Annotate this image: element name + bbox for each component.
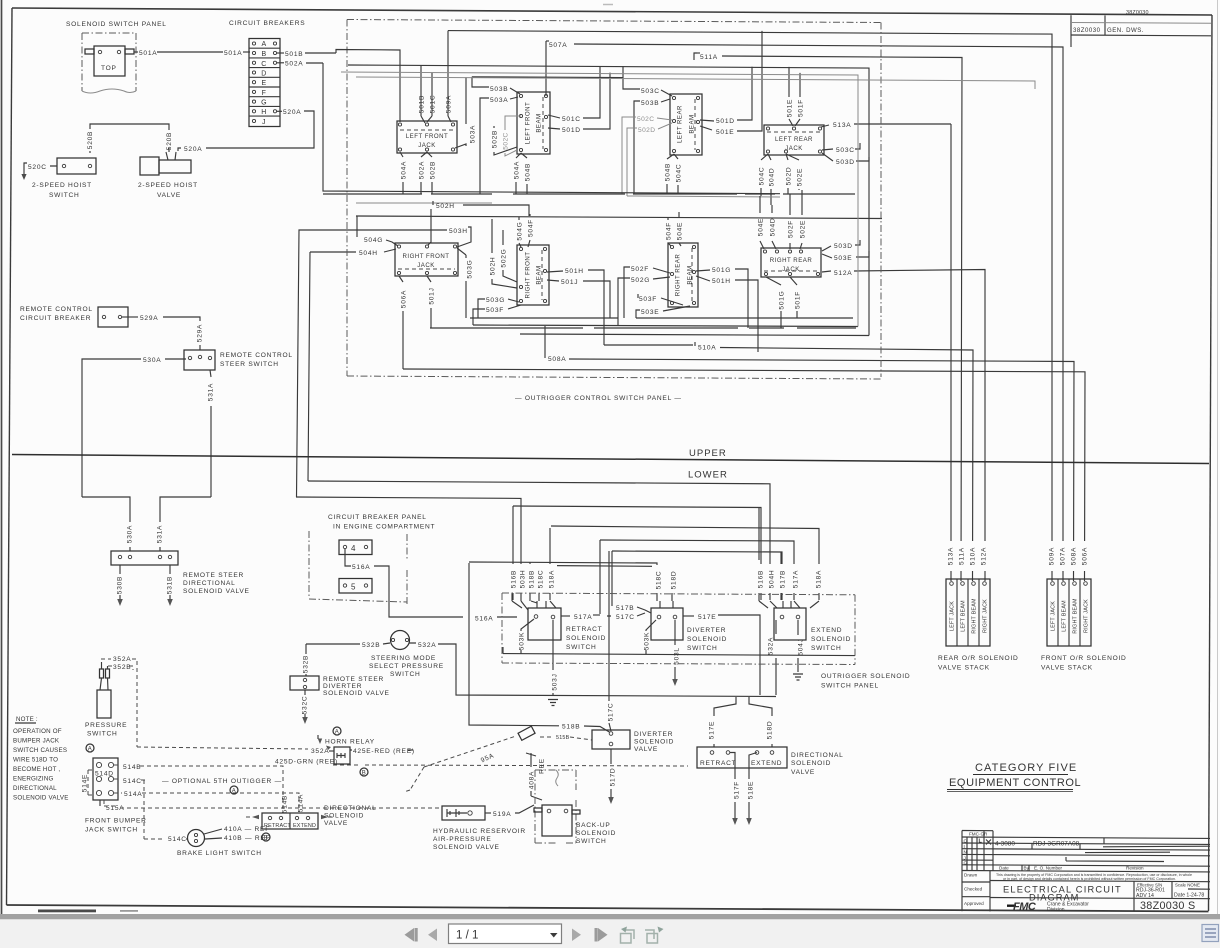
svg-text:514B: 514B — [123, 764, 141, 771]
svg-text:514D: 514D — [95, 771, 114, 778]
svg-text:530A: 530A — [143, 357, 161, 364]
svg-text:SWITCH PANEL: SWITCH PANEL — [821, 683, 879, 690]
svg-text:SOLENOID: SOLENOID — [634, 739, 674, 746]
svg-text:514A: 514A — [124, 791, 142, 798]
viewer right edge line — [1217, 0, 1219, 915]
svg-text:Scale NONE: Scale NONE — [1175, 883, 1200, 888]
y=72 trunk — [341, 72, 858, 327]
svg-text:518C: 518C — [656, 571, 663, 590]
svg-text:504F: 504F — [528, 219, 535, 237]
svg-text:CIRCUIT BREAKERS: CIRCUIT BREAKERS — [229, 20, 305, 27]
svg-text:508A: 508A — [548, 356, 566, 363]
wire 502A from breaker C — [277, 62, 284, 64]
svg-text:RIGHT REAR: RIGHT REAR — [675, 254, 682, 297]
svg-text:SWITCH: SWITCH — [687, 645, 718, 652]
svg-text:BECOME HOT ,: BECOME HOT , — [13, 766, 60, 773]
svg-text:509A: 509A — [1049, 547, 1056, 565]
svg-text:EQUIPMENT CONTROL: EQUIPMENT CONTROL — [949, 777, 1081, 789]
svg-text:38Z0030: 38Z0030 — [1073, 27, 1101, 34]
svg-text:503B: 503B — [641, 100, 659, 107]
svg-text:502E: 502E — [800, 220, 807, 238]
svg-text:G: G — [964, 861, 968, 866]
svg-text:501C: 501C — [562, 116, 581, 123]
bottom-left corner fine print — [38, 910, 96, 913]
wire 501B from breaker B — [277, 52, 284, 54]
svg-text:DIRECTIONAL: DIRECTIONAL — [183, 580, 236, 587]
517C drop — [609, 551, 611, 731]
svg-text:514C: 514C — [168, 836, 187, 843]
516A wiring — [345, 549, 351, 566]
svg-text:VALVE STACK: VALVE STACK — [938, 665, 990, 672]
svg-text:SOLENOID VALVE: SOLENOID VALVE — [183, 588, 250, 595]
svg-text:506A: 506A — [401, 290, 408, 308]
svg-text:RETRACT: RETRACT — [264, 823, 291, 829]
svg-text:517B: 517B — [616, 605, 634, 612]
svg-text:VALVE: VALVE — [157, 192, 181, 199]
pressure switch — [97, 690, 111, 718]
svg-text:CIRCUIT BREAKER: CIRCUIT BREAKER — [20, 315, 91, 322]
left front beam — [517, 92, 550, 154]
svg-text:SOLENOID: SOLENOID — [811, 636, 851, 643]
svg-text:VALVE STACK: VALVE STACK — [1041, 665, 1093, 672]
svg-text:502E: 502E — [797, 168, 804, 186]
svg-text:503C: 503C — [641, 88, 660, 95]
svg-text:517F: 517F — [734, 781, 741, 799]
svg-text:A: A — [232, 789, 236, 795]
steering mode select pressure switch — [391, 631, 410, 650]
svg-text:504C: 504C — [759, 167, 766, 186]
front bumper jack switch — [93, 758, 118, 800]
svg-text:4: 4 — [351, 544, 356, 553]
svg-text:506A: 506A — [1082, 547, 1089, 565]
svg-text:F: F — [262, 90, 267, 97]
svg-text:511A: 511A — [700, 54, 718, 61]
svg-text:STEERING MODE: STEERING MODE — [371, 655, 436, 662]
svg-text:502B: 502B — [430, 161, 437, 179]
outrigger solenoid switch panel dash-dot — [502, 593, 855, 665]
svg-text:SWITCH: SWITCH — [390, 671, 421, 678]
svg-text:LEFT REAR: LEFT REAR — [775, 136, 813, 143]
svg-text:REAR O/R SOLENOID: REAR O/R SOLENOID — [938, 655, 1019, 662]
first page icon — [405, 928, 418, 942]
left rear jack — [764, 125, 824, 155]
svg-text:DIVERTER: DIVERTER — [634, 731, 673, 738]
wire 501A — [134, 51, 138, 53]
svg-text:LEFT BEAM: LEFT BEAM — [1062, 600, 1068, 632]
516B bus — [513, 506, 761, 600]
svg-text:LEFT BEAM: LEFT BEAM — [961, 600, 967, 632]
518A bus — [551, 526, 819, 600]
svg-text:BEAM: BEAM — [536, 113, 543, 132]
svg-text:501E: 501E — [716, 129, 734, 136]
svg-text:RIGHT BEAM: RIGHT BEAM — [972, 598, 978, 634]
svg-text:Drawn: Drawn — [964, 873, 978, 878]
svg-text:H: H — [261, 109, 266, 116]
sidebar icon bottom right — [1202, 925, 1219, 942]
svg-text:504B: 504B — [525, 163, 532, 181]
svg-text:504C: 504C — [676, 164, 683, 183]
svg-text:517C: 517C — [616, 614, 635, 621]
506A wire — [403, 369, 1085, 581]
svg-text:503D: 503D — [836, 159, 855, 166]
svg-text:504D: 504D — [770, 218, 777, 237]
svg-text:DIRECTIONAL: DIRECTIONAL — [791, 752, 844, 759]
svg-text:FRONT O/R SOLENOID: FRONT O/R SOLENOID — [1041, 655, 1127, 662]
FMC logo — [1007, 901, 1037, 913]
svg-text:510A: 510A — [698, 345, 716, 352]
svg-text:502F: 502F — [788, 220, 795, 238]
svg-text:SWITCH CAUSES: SWITCH CAUSES — [13, 747, 67, 754]
svg-text:EXTEND: EXTEND — [811, 627, 842, 634]
svg-text:532C: 532C — [302, 696, 309, 715]
svg-text:502C: 502C — [503, 132, 510, 149]
svg-text:RIGHT JACK: RIGHT JACK — [1084, 599, 1090, 633]
svg-text:520A: 520A — [184, 146, 202, 153]
svg-text:511A: 511A — [959, 547, 966, 565]
svg-text:518B: 518B — [529, 570, 536, 588]
left rear beam — [670, 94, 702, 155]
svg-text:STEER SWITCH: STEER SWITCH — [220, 361, 279, 368]
svg-text:Approved: Approved — [964, 901, 984, 906]
svg-text:A: A — [261, 41, 266, 48]
svg-text:RIGHT FRONT: RIGHT FRONT — [402, 253, 449, 260]
top right GEN DWS table — [1070, 15, 1072, 47]
svg-text:I: I — [964, 844, 965, 849]
prev page icon — [428, 929, 437, 942]
svg-text:NOTE :: NOTE : — [16, 716, 38, 723]
svg-text:503D: 503D — [834, 243, 853, 250]
svg-text:or in part, of design and deta: or in part, of design and details contai… — [1003, 877, 1176, 881]
svg-text:517E: 517E — [709, 721, 716, 739]
svg-text:501J: 501J — [561, 279, 578, 286]
svg-text:532B: 532B — [362, 642, 380, 649]
svg-text:517E: 517E — [698, 614, 716, 621]
svg-text:352A: 352A — [311, 748, 329, 755]
svg-text:EXTEND: EXTEND — [751, 760, 782, 767]
svg-text:TOP: TOP — [101, 65, 117, 72]
solenoid switch box TOP — [94, 46, 125, 76]
svg-text:VALVE: VALVE — [791, 769, 815, 776]
svg-text:513A: 513A — [833, 122, 851, 129]
svg-text:518B: 518B — [562, 724, 580, 731]
svg-text:509A: 509A — [446, 95, 453, 113]
svg-text:520B: 520B — [87, 131, 94, 149]
svg-text:B: B — [264, 836, 268, 842]
svg-text:502B: 502B — [492, 130, 499, 148]
svg-text:RDJ-3GR07A08: RDJ-3GR07A08 — [1033, 840, 1080, 847]
2-speed hoist switch — [57, 158, 96, 174]
svg-text:508A: 508A — [1071, 547, 1078, 565]
svg-text:SWITCH: SWITCH — [87, 731, 118, 738]
svg-text:504A: 504A — [401, 161, 408, 179]
svg-text:By: By — [1024, 866, 1030, 871]
svg-text:VALVE: VALVE — [324, 820, 348, 827]
svg-text:512A: 512A — [834, 270, 852, 277]
svg-text:501A: 501A — [139, 50, 157, 57]
next page icon — [572, 929, 581, 942]
wire bracket bus row1 — [323, 193, 855, 195]
svg-text:BUMPER JACK: BUMPER JACK — [13, 738, 60, 745]
svg-text:502D: 502D — [638, 127, 655, 134]
svg-text:4-3080: 4-3080 — [995, 840, 1015, 847]
svg-text:503H: 503H — [449, 228, 468, 235]
svg-text:FRONT BUMPER: FRONT BUMPER — [85, 818, 147, 825]
svg-text:531B: 531B — [167, 576, 174, 594]
svg-text:JACK: JACK — [417, 262, 435, 269]
svg-text:1 / 1: 1 / 1 — [456, 930, 478, 942]
svg-text:SWITCH: SWITCH — [49, 192, 80, 199]
svg-text:514A: 514A — [298, 794, 305, 812]
svg-text:LEFT JACK: LEFT JACK — [950, 601, 956, 631]
svg-text:BEAM: BEAM — [687, 265, 694, 284]
svg-text:503K: 503K — [644, 632, 651, 650]
svg-text:503C: 503C — [836, 147, 855, 154]
svg-text:SWITCH: SWITCH — [576, 838, 607, 845]
svg-text:SOLENOID: SOLENOID — [576, 830, 616, 837]
NOTE block — [13, 716, 69, 802]
svg-text:REMOTE CONTROL: REMOTE CONTROL — [20, 306, 93, 313]
svg-text:IN ENGINE COMPARTMENT: IN ENGINE COMPARTMENT — [333, 524, 435, 531]
svg-text:502A: 502A — [419, 161, 426, 179]
svg-text:REMOTE CONTROL: REMOTE CONTROL — [220, 352, 293, 359]
svg-text:514B: 514B — [282, 795, 289, 813]
svg-text:2-SPEED HOIST: 2-SPEED HOIST — [138, 182, 198, 189]
svg-text:501F: 501F — [795, 291, 802, 309]
horn relay — [333, 727, 341, 735]
svg-text:SOLENOID: SOLENOID — [791, 760, 831, 767]
svg-text:520C: 520C — [28, 164, 47, 171]
svg-text:529A: 529A — [140, 315, 158, 322]
svg-text:D: D — [261, 71, 266, 78]
svg-text:503G: 503G — [467, 259, 474, 278]
svg-text:503A: 503A — [490, 97, 508, 104]
svg-text:PRESSURE: PRESSURE — [85, 722, 127, 729]
516A routing box verticals — [469, 563, 559, 726]
svg-text:502G: 502G — [501, 248, 508, 267]
svg-text:518A: 518A — [549, 570, 556, 588]
left front jack — [397, 121, 457, 153]
svg-text:SOLENOID: SOLENOID — [566, 635, 606, 642]
507A tap above LFB — [545, 41, 547, 96]
svg-text:514C: 514C — [123, 778, 142, 785]
svg-text:RIGHT FRONT: RIGHT FRONT — [525, 251, 532, 298]
svg-text:SOLENOID VALVE: SOLENOID VALVE — [13, 795, 69, 802]
svg-text:408A: 408A — [529, 771, 536, 789]
svg-text:518E: 518E — [748, 781, 755, 799]
svg-text:516B: 516B — [511, 570, 518, 588]
svg-text:RIGHT BEAM: RIGHT BEAM — [1073, 598, 1079, 634]
svg-text:SWITCH: SWITCH — [566, 644, 597, 651]
svg-text:501D: 501D — [716, 118, 735, 125]
svg-text:516A: 516A — [352, 564, 370, 571]
svg-text:504G: 504G — [364, 237, 383, 244]
svg-text:OPERATION OF: OPERATION OF — [13, 728, 62, 735]
title block outer — [962, 831, 1210, 912]
circled A — [86, 744, 94, 752]
svg-text:503E: 503E — [641, 309, 659, 316]
svg-text:SWITCH: SWITCH — [811, 645, 842, 652]
svg-text:530B: 530B — [117, 576, 124, 594]
svg-text:501C: 501C — [430, 95, 437, 114]
svg-text:502H: 502H — [436, 203, 455, 210]
svg-text:532B: 532B — [303, 655, 310, 673]
svg-text:ENERGIZING: ENERGIZING — [13, 776, 54, 783]
svg-text:DIRECTIONAL: DIRECTIONAL — [13, 785, 57, 792]
svg-text:516A: 516A — [475, 616, 493, 623]
svg-text:DIVERTER: DIVERTER — [323, 683, 362, 690]
svg-text:C: C — [261, 61, 266, 68]
svg-text:503E: 503E — [834, 255, 852, 262]
svg-text:504H: 504H — [769, 570, 776, 589]
svg-text:E. O. Number: E. O. Number — [1034, 866, 1063, 871]
top page notch — [603, 4, 613, 6]
svg-text:520A: 520A — [283, 109, 301, 116]
next view icon — [645, 927, 664, 944]
svg-text:531A: 531A — [157, 525, 164, 543]
svg-text:518D: 518D — [671, 571, 678, 590]
svg-text:CIRCUIT BREAKER PANEL: CIRCUIT BREAKER PANEL — [328, 514, 427, 521]
svg-text:LEFT FRONT: LEFT FRONT — [525, 102, 532, 144]
CATEGORY FIVE heading — [947, 762, 1081, 792]
svg-text:504H: 504H — [359, 250, 378, 257]
svg-text:530A: 530A — [127, 525, 134, 543]
right front beam — [517, 245, 549, 305]
directional solenoid valve (middle) — [714, 697, 736, 747]
svg-text:504A: 504A — [514, 161, 521, 179]
right rear jack — [761, 248, 821, 277]
svg-text:CATEGORY FIVE: CATEGORY FIVE — [975, 762, 1077, 774]
svg-text:Revision: Revision — [1126, 866, 1144, 871]
brake light switch — [188, 830, 205, 847]
gray separation band under page — [0, 914, 1220, 920]
2-speed hoist valve — [140, 157, 159, 175]
svg-text:REE: REE — [539, 758, 546, 774]
svg-text:502G: 502G — [631, 277, 650, 284]
wire 520A from breaker H — [277, 110, 282, 112]
svg-text:503F: 503F — [486, 307, 504, 314]
svg-text:507A: 507A — [549, 42, 567, 49]
outrigger panel dash-dot boundary — [347, 20, 881, 380]
svg-text:G: G — [261, 100, 267, 107]
svg-text:517C: 517C — [608, 703, 615, 722]
svg-text:501D: 501D — [562, 127, 581, 134]
svg-text:502H: 502H — [490, 257, 497, 276]
svg-text:HORN RELAY: HORN RELAY — [325, 739, 375, 746]
svg-text:ADV 14: ADV 14 — [1136, 893, 1154, 899]
svg-text:504F: 504F — [666, 222, 673, 240]
svg-text:501H: 501H — [712, 278, 731, 285]
svg-text:SOLENOID VALVE: SOLENOID VALVE — [433, 844, 500, 851]
517A bus — [600, 540, 794, 600]
revision content — [964, 831, 989, 865]
previous view icon — [621, 927, 635, 944]
svg-text:38Z0030 S: 38Z0030 S — [1140, 900, 1196, 912]
svg-text:RIGHT REAR: RIGHT REAR — [770, 257, 813, 264]
svg-text:BACK-UP: BACK-UP — [576, 822, 611, 829]
svg-text:518C: 518C — [538, 570, 545, 589]
svg-text:WIRE 518D TO: WIRE 518D TO — [13, 757, 58, 764]
svg-text:519A: 519A — [493, 811, 511, 818]
svg-text:503L: 503L — [674, 647, 681, 665]
svg-text:REMOTE STEER: REMOTE STEER — [323, 676, 384, 683]
svg-text:J: J — [262, 119, 266, 126]
svg-text:501J: 501J — [429, 287, 436, 304]
svg-text:E: E — [261, 80, 266, 87]
directional solenoid valve (left) — [262, 813, 318, 829]
svg-text:520B: 520B — [166, 132, 173, 150]
svg-text:502F: 502F — [631, 266, 649, 273]
svg-text:N: N — [964, 850, 967, 855]
513A vertical — [950, 124, 952, 581]
svg-text:532A: 532A — [418, 642, 436, 649]
svg-text:502A: 502A — [285, 61, 303, 68]
svg-text:JACK SWITCH: JACK SWITCH — [85, 827, 138, 834]
svg-text:B: B — [261, 51, 266, 58]
svg-text:DIRECTIONAL: DIRECTIONAL — [324, 805, 377, 812]
svg-text:425D-GRN (REE): 425D-GRN (REE) — [275, 759, 338, 766]
svg-text:501G: 501G — [779, 290, 786, 309]
svg-text:503K: 503K — [519, 632, 526, 650]
518B 518C drops from divider — [469, 562, 657, 601]
svg-text:504E: 504E — [677, 222, 684, 240]
svg-text:504J: 504J — [798, 638, 805, 655]
svg-text:518D: 518D — [767, 721, 774, 740]
svg-text:REMOTE STEER: REMOTE STEER — [183, 572, 244, 579]
svg-text:513A: 513A — [948, 547, 955, 565]
svg-text:516B: 516B — [758, 570, 765, 588]
circuit breaker stack — [249, 39, 280, 127]
svg-text:501G: 501G — [712, 267, 731, 274]
svg-text:DIVERTER: DIVERTER — [687, 627, 726, 634]
svg-text:503J: 503J — [552, 673, 559, 690]
svg-text:38Z0030: 38Z0030 — [1126, 10, 1149, 16]
svg-text:501F: 501F — [798, 99, 805, 117]
svg-text:518A: 518A — [816, 570, 823, 588]
svg-text:Date 1-24-78: Date 1-24-78 — [1174, 893, 1204, 899]
svg-text:352B: 352B — [113, 664, 131, 671]
solenoid switch panel dash-dot outline — [82, 33, 136, 91]
509A trunk — [448, 31, 1052, 581]
svg-text:BRAKE LIGHT SWITCH: BRAKE LIGHT SWITCH — [177, 850, 262, 857]
svg-text:SOLENOID: SOLENOID — [324, 813, 364, 820]
svg-text:LOWER: LOWER — [688, 470, 728, 481]
svg-text:A: A — [335, 730, 339, 736]
svg-text:502D: 502D — [786, 167, 793, 186]
wire 503K bus — [503, 647, 855, 656]
right front jack — [395, 243, 458, 276]
svg-text:512A: 512A — [981, 547, 988, 565]
svg-text:501H: 501H — [565, 268, 584, 275]
wire bracket bus row2 — [430, 327, 856, 329]
svg-text:FMC: FMC — [1013, 901, 1037, 913]
svg-text:LEFT FRONT: LEFT FRONT — [406, 133, 448, 140]
svg-text:507A: 507A — [1060, 547, 1067, 565]
svg-text:Division: Division — [1047, 907, 1065, 913]
svg-text:514E: 514E — [82, 774, 89, 792]
right rear beam — [668, 243, 698, 307]
svg-text:503B: 503B — [490, 86, 508, 93]
back-up solenoid switch — [535, 770, 576, 843]
svg-text:504G: 504G — [517, 221, 524, 240]
svg-text:503F: 503F — [639, 296, 657, 303]
svg-text:EXTEND: EXTEND — [293, 823, 316, 829]
95A connector + dashed diagonal — [518, 726, 535, 740]
svg-text:425E-RED (REE): 425E-RED (REE) — [353, 748, 415, 755]
svg-text:2-SPEED HOIST: 2-SPEED HOIST — [32, 182, 92, 189]
svg-text:JACK: JACK — [782, 266, 800, 273]
rear o/r solenoid valve stack — [946, 579, 990, 646]
svg-text:503H: 503H — [520, 570, 527, 589]
